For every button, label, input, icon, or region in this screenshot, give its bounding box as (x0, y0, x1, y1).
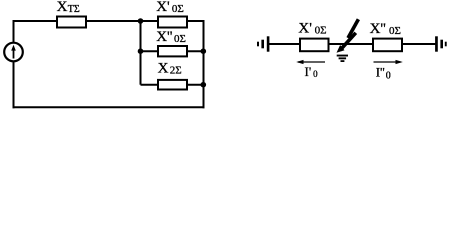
resistor X2Σ (158, 80, 187, 90)
node C (junction dot right bus middle) (201, 48, 207, 54)
wire: left bus vertical (140, 21, 142, 85)
wire: left vertical lower (source bottom to bottom rail) (13, 61, 15, 108)
wire: branch 2 left (141, 50, 159, 52)
svg-text:X'0Σ: X'0Σ (156, 0, 184, 15)
resistor X''0Σ (left circuit) (158, 46, 187, 56)
wire: right circuit middle segment (329, 43, 374, 45)
svg-text:XΤΣ: XΤΣ (57, 0, 80, 15)
svg-text:X''0Σ: X''0Σ (156, 29, 186, 45)
resistor X''0Σ (right circuit) (373, 39, 402, 52)
node B (junction dot left bus middle) (138, 48, 144, 54)
node D (junction dot right bus lower) (201, 82, 207, 88)
wire: top rail X'0Σ to right bus corner (187, 21, 204, 22)
svg-text:X''0Σ: X''0Σ (370, 21, 401, 37)
svg-text:I'0: I'0 (305, 64, 319, 79)
svg-text:X'0Σ: X'0Σ (298, 21, 326, 37)
current arrow I'0 (pointing left) (296, 60, 325, 64)
resistor X'0Σ (right circuit) (300, 39, 329, 52)
wire: right bus vertical (203, 21, 205, 108)
wire: top rail from corner to XTΣ (13, 20, 57, 22)
wire: left vertical upper (source top to top rail) (13, 20, 15, 43)
wire: branch 3 left (141, 84, 159, 86)
current arrow I''0 (pointing right) (374, 60, 403, 64)
ground under fault (337, 55, 348, 62)
wire: right circuit left segment (268, 43, 300, 45)
svg-text:X2Σ: X2Σ (158, 61, 182, 77)
wire: bottom rail (13, 106, 205, 108)
source (circle with up arrow) (4, 43, 23, 62)
wire: branch 3 right (187, 84, 204, 86)
resistor X'0Σ (left circuit) (158, 17, 187, 28)
wire: branch 2 right (187, 50, 204, 52)
svg-text:I''0: I''0 (376, 64, 391, 81)
ground terminal left (rotated earth) (257, 36, 269, 51)
wire: right circuit right segment (402, 43, 436, 45)
fault lightning bolt (337, 19, 359, 53)
ground terminal right (rotated earth) (435, 36, 447, 51)
wire: top rail node A to X'0Σ (141, 20, 159, 22)
node A (junction dot top) (138, 18, 144, 24)
wire: top rail XTΣ to node A (86, 20, 141, 22)
resistor XTΣ (57, 17, 86, 28)
